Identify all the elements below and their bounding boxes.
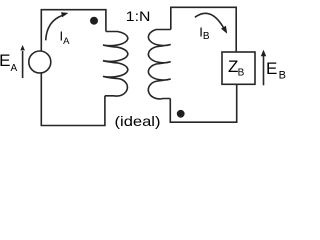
svg-text:ZB: ZB [228,57,245,78]
svg-text:1:N: 1:N [126,8,151,24]
arrowhead I_B [221,26,227,34]
arrowhead E_B [261,50,266,57]
svg-text:EB: EB [266,59,286,82]
wire: secondary top to Z_B top [171,7,236,52]
wire: source top to primary top [41,10,106,51]
voltage arrow E_B shaft [263,56,265,85]
polarity dot primary [90,17,98,25]
wire: primary bottom to source bottom [41,73,105,126]
svg-text:EA: EA [0,51,17,74]
transformer primary winding [103,32,128,97]
voltage source E_A [29,51,51,73]
svg-text:IB: IB [199,24,210,42]
transformer secondary winding [148,30,171,99]
voltage arrow E_A shaft [22,51,24,78]
svg-text:IA: IA [60,28,71,47]
wire: secondary bottom to Z_B bottom [170,84,236,122]
svg-text:(ideal): (ideal) [115,114,161,129]
arrowhead I_A [61,12,68,17]
impedance Z_B box [222,52,255,84]
polarity dot secondary [177,110,185,118]
arrowhead E_A [20,45,25,50]
current arrow I_A arc [46,15,63,40]
current arrow I_B arc [195,13,224,28]
